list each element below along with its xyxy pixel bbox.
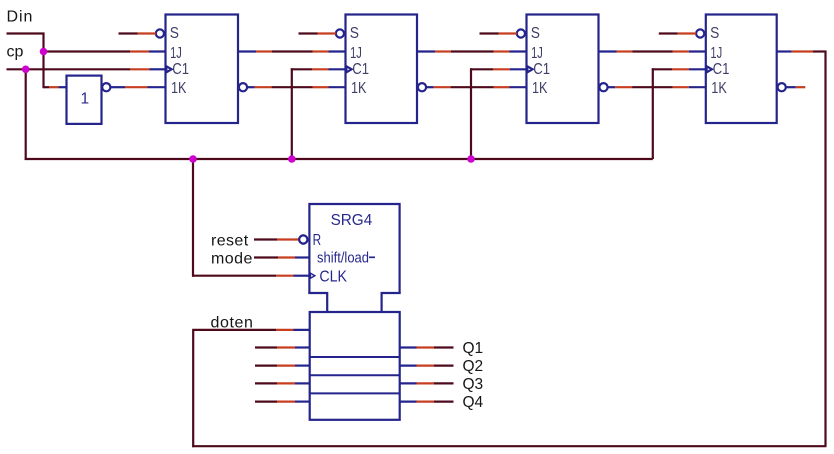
U4 Qbar output bubble [778, 83, 786, 91]
svg-text:Q1: Q1 [463, 340, 484, 357]
U6 R input bubble [299, 235, 307, 243]
svg-text:C1: C1 [713, 61, 730, 78]
SRG4 register body U6 [310, 312, 400, 420]
U6 stage divider 3 [310, 392, 400, 394]
SRG4 control block left step [308, 293, 327, 312]
U4 clock triangle [706, 65, 714, 74]
wire riser C1 U2 [291, 68, 293, 159]
wire U5 output to 1K of U1 [110, 86, 165, 88]
wire feedback bottom bus [192, 445, 826, 447]
wire U1 Q to U2 1J [238, 50, 346, 52]
wire Din to inverter input [44, 86, 67, 88]
U6 stage divider 1 [310, 356, 400, 358]
wire U2 S input stub [299, 32, 336, 34]
wire U1 Qbar to U2 1K [247, 86, 345, 88]
wire U4 S input stub [659, 32, 696, 34]
svg-text:C1: C1 [352, 61, 369, 78]
svg-text:1K: 1K [351, 80, 367, 97]
U6 shift/load overbar tick [369, 256, 375, 258]
U2 clock triangle [346, 65, 354, 74]
U6 R bubble overdraw [299, 235, 307, 243]
wire U6 output Q2 [400, 365, 454, 367]
wire cp to C1 of U1 [7, 68, 166, 70]
inverter U5 [67, 76, 102, 124]
wire U3 Qbar to U4 1K [608, 86, 706, 88]
svg-text:mode: mode [211, 250, 253, 267]
wire U4 Q output [777, 50, 827, 52]
svg-text:S: S [710, 25, 719, 42]
U1 clock triangle [166, 65, 174, 74]
svg-text:C1: C1 [172, 61, 189, 78]
wire U6 data input stub D3 [255, 382, 310, 384]
wire riser C1 U4 [652, 68, 654, 159]
junction node bus-CLK [189, 155, 197, 163]
wire branch C1 U2 [291, 68, 346, 70]
svg-text:1J: 1J [531, 45, 543, 62]
svg-text:C1: C1 [533, 61, 550, 78]
wire U4 Qbar stub [786, 86, 806, 88]
junction node Din-1J [40, 48, 48, 56]
wire feedback left vertical [192, 330, 194, 447]
U6 clock triangle [310, 272, 316, 279]
JK flip-flop U1 [166, 15, 239, 124]
svg-text:CLK: CLK [319, 269, 347, 286]
wire U6 data input stub D4 [255, 401, 310, 403]
U4 S input bubble [696, 29, 704, 37]
svg-text:doten: doten [211, 314, 254, 331]
wire mode wire [254, 256, 310, 258]
wire U1 S input stub [119, 32, 156, 34]
junction node cp-branch [22, 66, 30, 74]
wire cp bottom bus [25, 158, 653, 160]
U3 S input bubble [517, 29, 525, 37]
svg-text:1K: 1K [171, 80, 187, 97]
SRG4 control block right step [382, 293, 401, 312]
wire branch CLK SRG4 [192, 275, 310, 277]
svg-text:cp: cp [7, 44, 24, 61]
wire U2 Q to U3 1J [417, 50, 527, 52]
junction node bus-C1-U3 [467, 155, 475, 163]
wire reset wire [254, 238, 299, 240]
JK flip-flop U3 [527, 15, 599, 124]
wire drop to CLK [192, 159, 194, 277]
svg-text:S: S [531, 25, 540, 42]
wire U6 output Q4 [400, 401, 454, 403]
U5 output bubble [102, 83, 110, 91]
wire Din to 1J of U1 [44, 50, 166, 52]
wire U6 data input stub D2 [255, 365, 310, 367]
wire feedback right vertical [824, 51, 826, 447]
junction node bus-C1-U2 [288, 155, 296, 163]
wire riser C1 U3 [470, 68, 472, 159]
wire branch C1 U3 [470, 68, 527, 70]
JK flip-flop U2 [346, 15, 418, 124]
svg-text:S: S [350, 25, 359, 42]
SRG4 control block U6 outline [309, 204, 399, 293]
wire U6 output Q3 [400, 382, 454, 384]
wire U2 Qbar to U3 1K [426, 86, 526, 88]
JK flip-flop U4 [706, 15, 777, 124]
wire branch C1 U4 [652, 68, 706, 70]
U3 clock triangle [527, 65, 535, 74]
wire U3 S input stub [480, 32, 517, 34]
wire U6 output Q1 [400, 346, 454, 348]
U2 S input bubble [336, 29, 344, 37]
svg-text:R: R [313, 232, 322, 249]
U1 Qbar output bubble [239, 83, 247, 91]
U2 Qbar output bubble [418, 83, 426, 91]
svg-text:SRG4: SRG4 [331, 212, 373, 229]
svg-text:Q3: Q3 [463, 376, 484, 393]
wire U3 Q to U4 1J [599, 50, 706, 52]
svg-text:shift/load: shift/load [317, 250, 369, 266]
wire Din horizontal [7, 32, 45, 34]
U1 S input bubble [156, 29, 164, 37]
U6 stage divider 2 [310, 374, 400, 376]
svg-text:1: 1 [81, 91, 90, 108]
svg-text:1K: 1K [532, 80, 548, 97]
svg-text:1K: 1K [711, 80, 727, 97]
svg-text:1J: 1J [350, 45, 362, 62]
wire doten wire [192, 329, 310, 331]
svg-text:Din: Din [7, 9, 34, 26]
svg-text:1J: 1J [170, 45, 182, 62]
wire U6 data input stub D1 [255, 346, 310, 348]
U3 Qbar output bubble [599, 83, 607, 91]
svg-text:Q4: Q4 [463, 394, 484, 411]
svg-text:reset: reset [211, 232, 249, 249]
svg-text:Q2: Q2 [463, 358, 484, 375]
wire Din vertical drop [42, 33, 44, 89]
svg-text:S: S [170, 25, 179, 42]
svg-text:1J: 1J [710, 45, 722, 62]
wire cp vertical drop [25, 69, 27, 160]
